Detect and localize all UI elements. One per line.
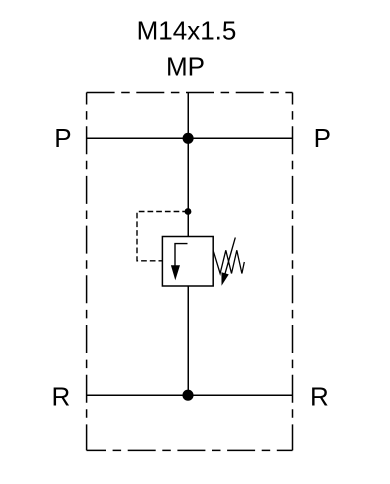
adjustment arrow shaft xyxy=(225,238,236,276)
svg-text:P: P xyxy=(314,123,331,153)
spring xyxy=(213,250,244,273)
valve internal flow arrowhead xyxy=(171,265,180,280)
svg-text:R: R xyxy=(310,382,329,412)
pilot dashed line xyxy=(137,212,188,261)
junction node pilot xyxy=(185,208,192,215)
enclosure dashed border bottom edge xyxy=(87,449,293,451)
svg-text:MP: MP xyxy=(166,52,205,82)
svg-text:R: R xyxy=(52,382,71,412)
wire P line xyxy=(87,137,293,139)
svg-text:M14x1.5: M14x1.5 xyxy=(137,16,237,46)
junction node R xyxy=(182,390,193,401)
enclosure dashed border right edge xyxy=(292,93,294,451)
valve body box xyxy=(162,237,213,287)
wire MP vertical upper xyxy=(187,93,189,237)
svg-text:P: P xyxy=(54,123,71,153)
enclosure dashed border top edge xyxy=(87,92,293,94)
enclosure dashed border left edge xyxy=(86,93,88,451)
adjustment arrowhead xyxy=(221,272,228,286)
valve internal flow arrow xyxy=(175,244,188,267)
wire valve outlet vertical lower xyxy=(187,286,189,395)
junction node P xyxy=(183,133,194,144)
wire R line xyxy=(87,394,293,396)
